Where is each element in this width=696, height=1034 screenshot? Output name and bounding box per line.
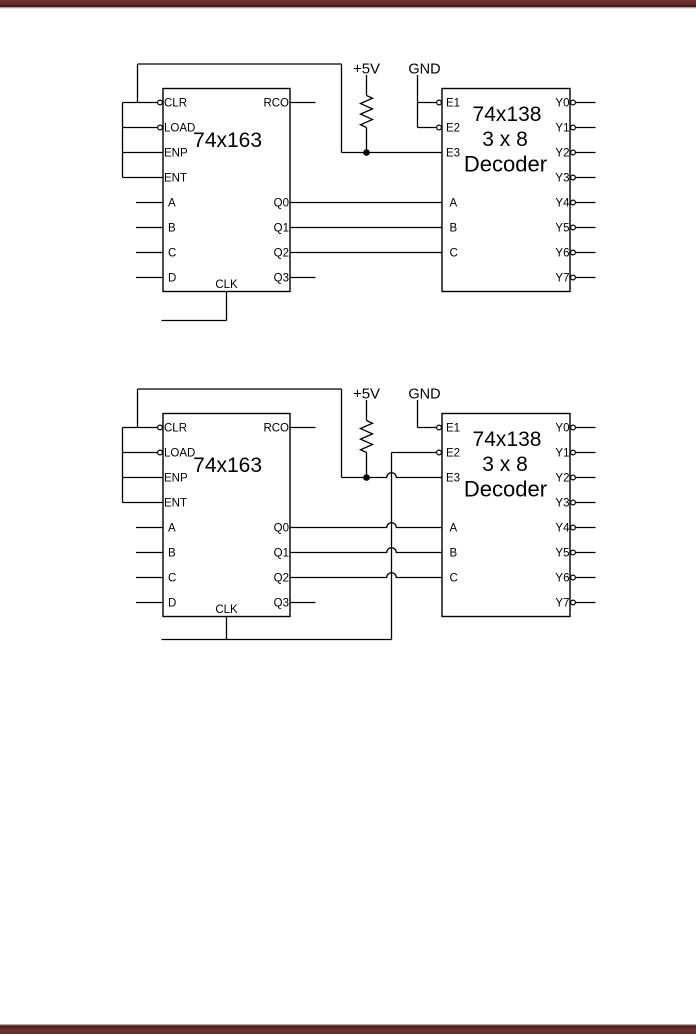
- svg-text:E2: E2: [446, 123, 460, 135]
- svg-text:+5V: +5V: [353, 60, 380, 77]
- svg-text:D: D: [168, 273, 176, 285]
- svg-text:Q3: Q3: [274, 273, 289, 285]
- svg-text:74x138: 74x138: [473, 428, 542, 451]
- svg-text:Y0: Y0: [555, 423, 569, 435]
- svg-text:C: C: [450, 248, 458, 260]
- svg-text:CLK: CLK: [215, 279, 238, 291]
- svg-text:Y6: Y6: [555, 248, 569, 260]
- svg-text:Q2: Q2: [274, 248, 289, 260]
- svg-text:LOAD: LOAD: [164, 448, 195, 460]
- svg-text:Y4: Y4: [555, 523, 570, 535]
- svg-text:Decoder: Decoder: [464, 477, 547, 502]
- svg-text:Q0: Q0: [274, 523, 289, 535]
- svg-text:A: A: [450, 198, 458, 210]
- svg-text:C: C: [168, 573, 176, 585]
- svg-text:E3: E3: [446, 148, 460, 160]
- svg-text:E1: E1: [446, 423, 460, 435]
- svg-text:Y7: Y7: [555, 598, 569, 610]
- svg-text:B: B: [168, 223, 176, 235]
- svg-text:Y6: Y6: [555, 573, 569, 585]
- svg-text:Q1: Q1: [274, 548, 289, 560]
- svg-text:E1: E1: [446, 98, 460, 110]
- svg-text:Q2: Q2: [274, 573, 289, 585]
- svg-text:B: B: [450, 223, 458, 235]
- svg-text:Decoder: Decoder: [464, 152, 547, 177]
- svg-text:E2: E2: [446, 448, 460, 460]
- svg-text:Y7: Y7: [555, 273, 569, 285]
- svg-text:Y3: Y3: [555, 173, 569, 185]
- svg-text:CLR: CLR: [164, 423, 187, 435]
- svg-text:B: B: [450, 548, 458, 560]
- svg-text:74x163: 74x163: [193, 129, 262, 152]
- svg-text:Y2: Y2: [555, 148, 569, 160]
- svg-text:Y1: Y1: [555, 448, 569, 460]
- svg-text:3 x 8: 3 x 8: [482, 453, 528, 476]
- svg-text:LOAD: LOAD: [164, 123, 195, 135]
- svg-text:D: D: [168, 598, 176, 610]
- svg-text:GND: GND: [408, 386, 440, 402]
- svg-text:Y2: Y2: [555, 473, 569, 485]
- svg-text:Y3: Y3: [555, 498, 569, 510]
- svg-text:ENT: ENT: [164, 498, 187, 510]
- svg-text:C: C: [168, 248, 176, 260]
- svg-text:RCO: RCO: [263, 98, 289, 110]
- svg-text:Y5: Y5: [555, 223, 569, 235]
- svg-text:GND: GND: [408, 61, 440, 77]
- svg-text:RCO: RCO: [263, 423, 289, 435]
- svg-text:Q1: Q1: [274, 223, 289, 235]
- svg-text:A: A: [450, 523, 458, 535]
- svg-text:3 x 8: 3 x 8: [482, 128, 528, 151]
- svg-text:Q0: Q0: [274, 198, 289, 210]
- svg-text:Y4: Y4: [555, 198, 570, 210]
- svg-text:Y5: Y5: [555, 548, 569, 560]
- svg-text:74x138: 74x138: [473, 103, 542, 126]
- svg-text:B: B: [168, 548, 176, 560]
- svg-text:Q3: Q3: [274, 598, 289, 610]
- svg-text:74x163: 74x163: [193, 454, 262, 477]
- svg-text:Y1: Y1: [555, 123, 569, 135]
- svg-text:C: C: [450, 573, 458, 585]
- svg-text:ENT: ENT: [164, 173, 187, 185]
- svg-text:E3: E3: [446, 473, 460, 485]
- svg-text:A: A: [168, 523, 176, 535]
- svg-text:ENP: ENP: [164, 473, 188, 485]
- svg-text:A: A: [168, 198, 176, 210]
- svg-text:Y0: Y0: [555, 98, 569, 110]
- svg-text:CLK: CLK: [215, 604, 238, 616]
- svg-text:ENP: ENP: [164, 148, 188, 160]
- svg-text:+5V: +5V: [353, 385, 380, 402]
- svg-text:CLR: CLR: [164, 98, 187, 110]
